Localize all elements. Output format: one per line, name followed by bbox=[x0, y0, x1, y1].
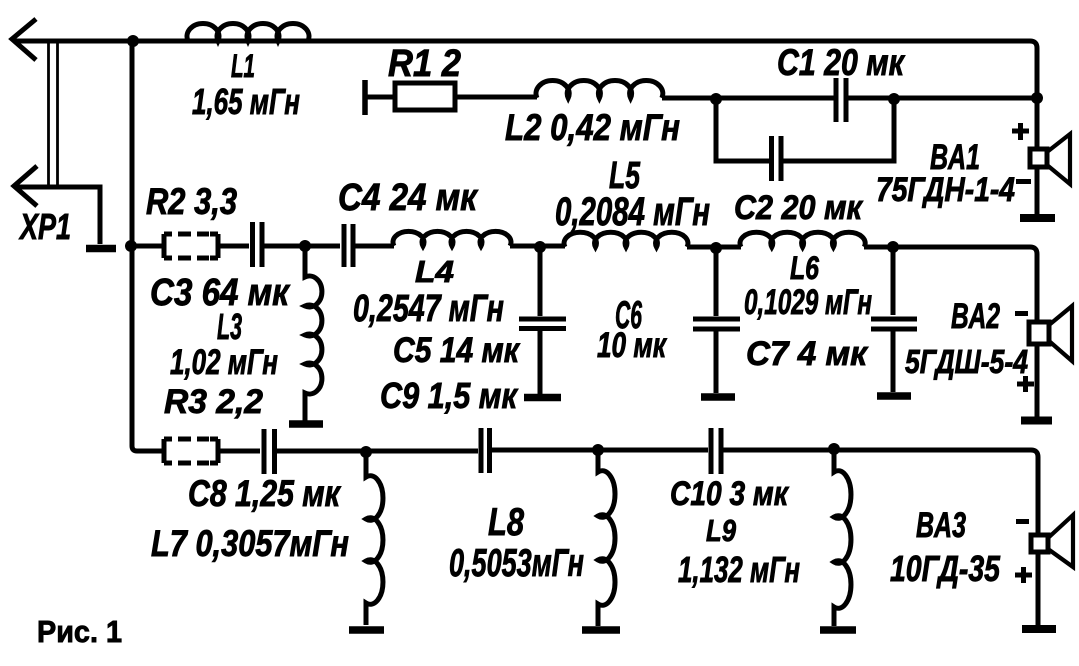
svg-text:C7 4 мк: C7 4 мк bbox=[746, 335, 869, 373]
svg-text:1,65 мГн: 1,65 мГн bbox=[192, 81, 300, 122]
svg-text:L8: L8 bbox=[488, 501, 524, 544]
svg-text:10 мк: 10 мк bbox=[597, 326, 668, 365]
svg-text:BA3: BA3 bbox=[916, 506, 966, 545]
svg-text:C2 20 мк: C2 20 мк bbox=[734, 189, 864, 227]
svg-text:10ГД-35: 10ГД-35 bbox=[890, 548, 1001, 589]
svg-text:R3 2,2: R3 2,2 bbox=[164, 383, 263, 421]
svg-text:C10 3 мк: C10 3 мк bbox=[670, 475, 789, 513]
svg-text:C5 14 мк: C5 14 мк bbox=[393, 331, 521, 370]
svg-text:L6: L6 bbox=[790, 250, 819, 286]
svg-text:C4 24 мк: C4 24 мк bbox=[338, 177, 479, 219]
svg-text:C9 1,5 мк: C9 1,5 мк bbox=[380, 375, 518, 416]
svg-text:5ГДШ-5-4: 5ГДШ-5-4 bbox=[905, 343, 1028, 380]
svg-text:1,02 мГн: 1,02 мГн bbox=[170, 343, 278, 382]
svg-text:L2 0,42 мГн: L2 0,42 мГн bbox=[505, 107, 680, 148]
svg-text:R1 2: R1 2 bbox=[388, 43, 461, 85]
svg-text:L7 0,3057мГн: L7 0,3057мГн bbox=[151, 523, 349, 564]
svg-text:L9: L9 bbox=[706, 513, 737, 548]
svg-text:0,5053мГн: 0,5053мГн bbox=[449, 542, 584, 585]
svg-text:C8 1,25 мк: C8 1,25 мк bbox=[188, 473, 342, 514]
svg-text:L3: L3 bbox=[217, 306, 242, 347]
svg-text:Рис. 1: Рис. 1 bbox=[37, 614, 122, 649]
svg-text:C1 20 мк: C1 20 мк bbox=[777, 42, 906, 83]
svg-text:BA2: BA2 bbox=[951, 297, 1000, 336]
svg-text:0,2084 мГн: 0,2084 мГн bbox=[555, 190, 710, 234]
svg-text:L1: L1 bbox=[231, 48, 255, 84]
svg-text:0,1029 мГн: 0,1029 мГн bbox=[744, 283, 872, 322]
svg-text:0,2547 мГн: 0,2547 мГн bbox=[353, 288, 504, 330]
svg-text:R2 3,3: R2 3,3 bbox=[146, 181, 237, 222]
svg-text:1,132 мГн: 1,132 мГн bbox=[678, 549, 800, 590]
svg-text:75ГДН-1-4: 75ГДН-1-4 bbox=[876, 171, 1015, 209]
svg-text:L4: L4 bbox=[415, 254, 454, 289]
svg-text:XP1: XP1 bbox=[19, 206, 71, 247]
